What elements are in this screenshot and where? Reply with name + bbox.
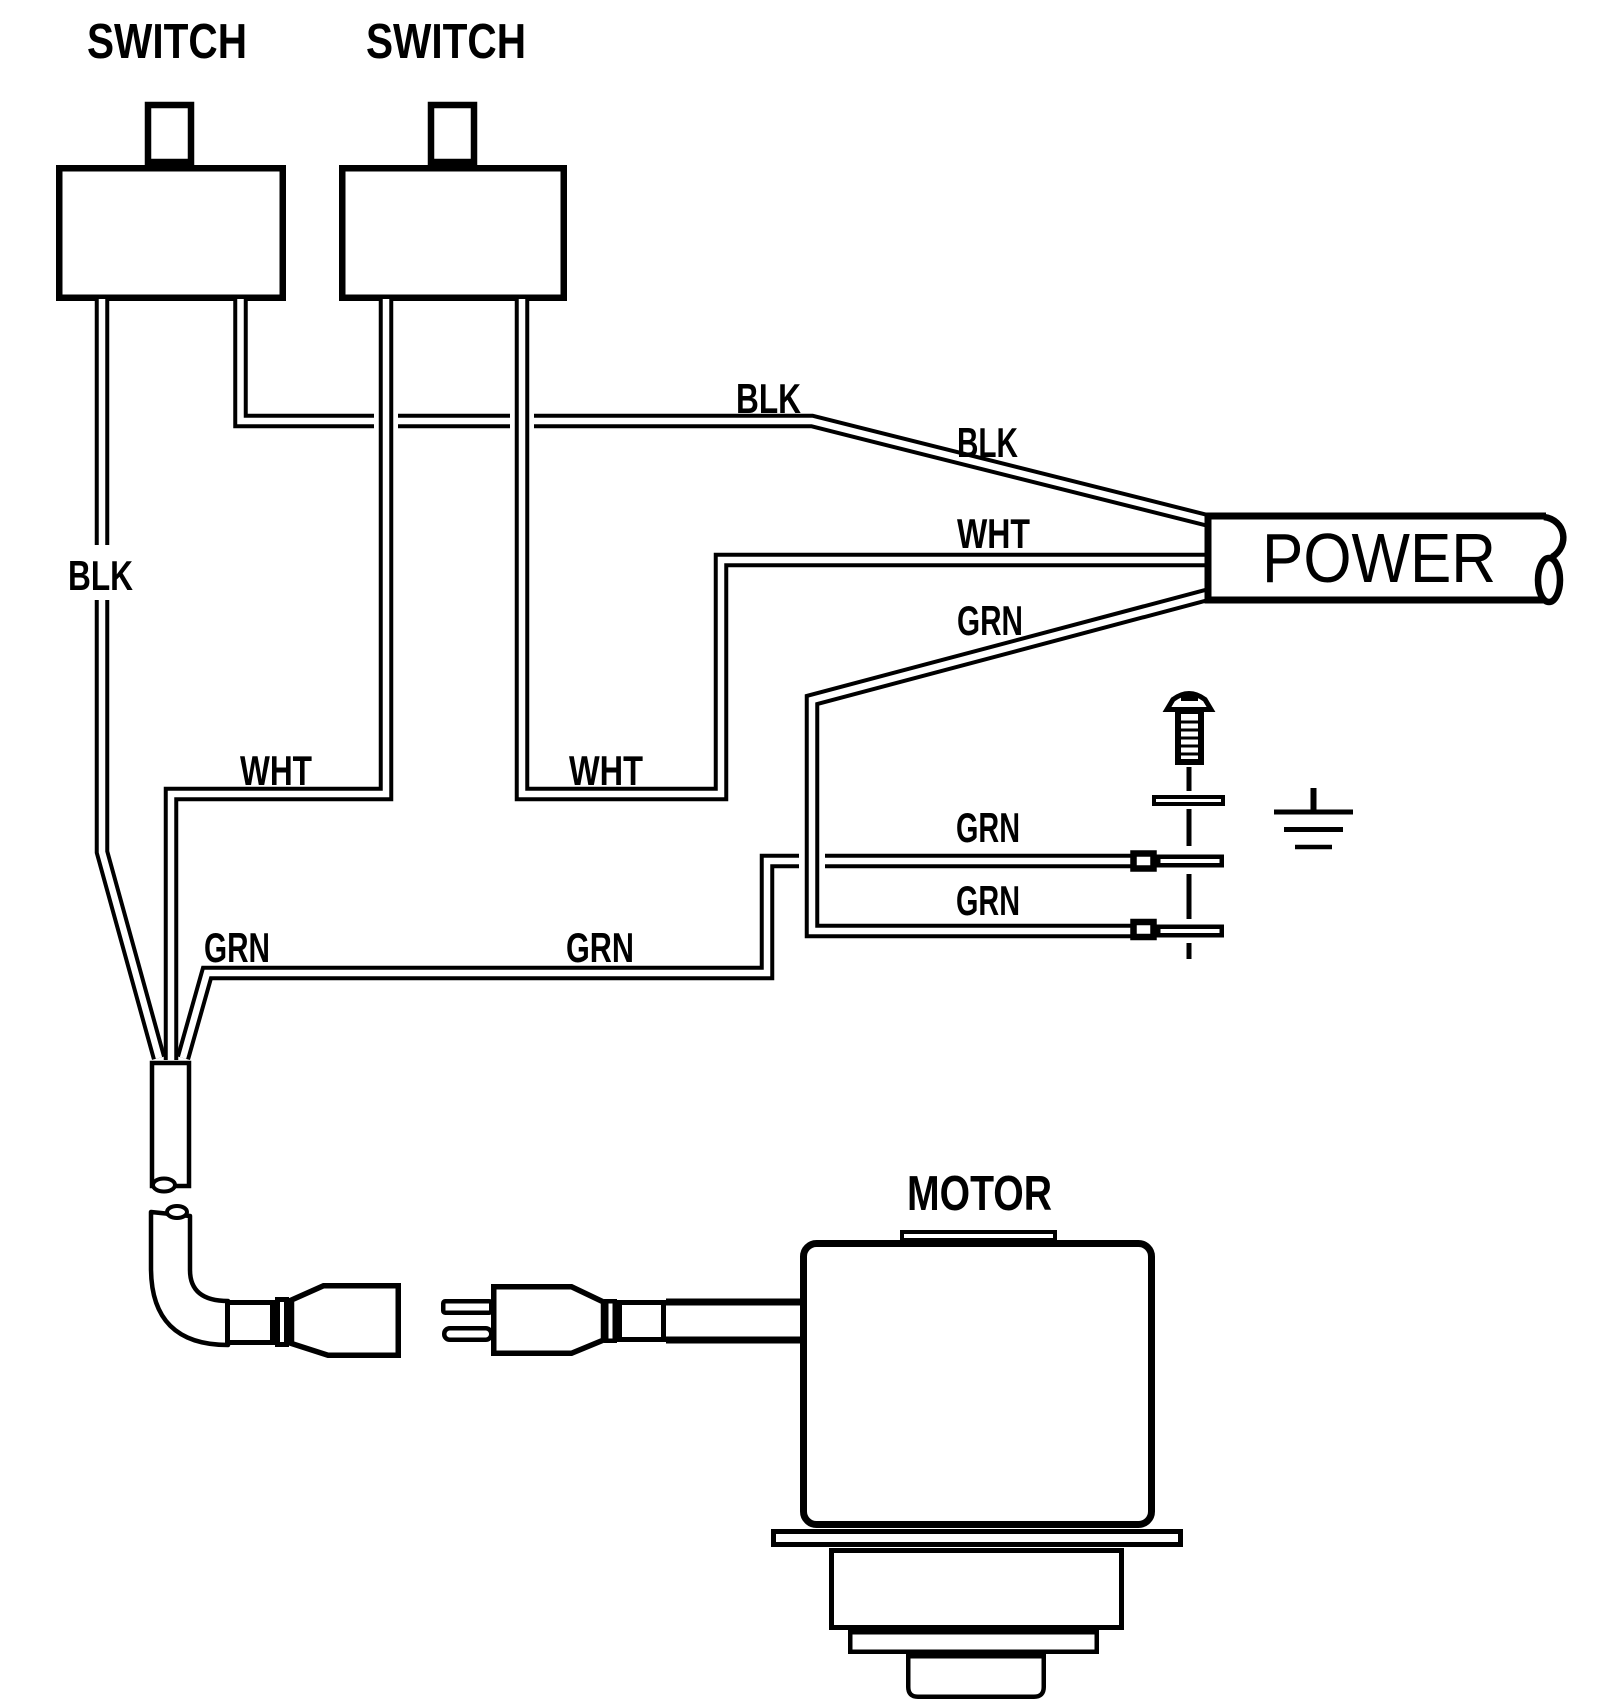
label WHT mid (569, 747, 643, 794)
wire BLK from switch S1 left pin to sleeve (102, 299, 159, 1058)
svg-text:GRN: GRN (957, 597, 1023, 644)
elbow ferrule ring (278, 1300, 287, 1345)
ring terminal 1 crimp (1134, 854, 1154, 869)
plug prong 2 (444, 1328, 491, 1340)
screw head (1167, 694, 1211, 710)
svg-text:SWITCH: SWITCH (87, 15, 247, 69)
wire GRN from POWER to ring terminal 2 (812, 592, 1218, 931)
washer (1154, 797, 1223, 804)
label SWITCH 2 (366, 15, 526, 69)
label MOTOR (907, 1167, 1052, 1221)
label GRN mid (566, 924, 634, 971)
motor step 2 (850, 1632, 1097, 1652)
wire WHT from switch S2 left pin to sleeve (171, 299, 386, 1060)
motor cable (666, 1302, 805, 1340)
ring terminal 1 blade (1158, 857, 1222, 866)
female connector body (292, 1286, 399, 1356)
plug ferrule (620, 1303, 664, 1340)
svg-text:MOTOR: MOTOR (907, 1167, 1052, 1221)
dashed center line (1187, 767, 1192, 959)
switch S1 body (59, 168, 283, 298)
label SWITCH 1 (87, 15, 247, 69)
label GRN left (204, 924, 270, 971)
svg-text:WHT: WHT (957, 510, 1030, 557)
svg-text:GRN: GRN (204, 924, 270, 971)
svg-text:GRN: GRN (956, 877, 1020, 924)
plug body (494, 1287, 604, 1354)
POWER cable end curl (1538, 517, 1563, 602)
label WHT left (240, 747, 312, 794)
motor body (804, 1244, 1152, 1525)
switch S2 button (431, 105, 474, 162)
ring terminal 2 crimp (1134, 922, 1154, 937)
ring terminal 2 blade (1158, 927, 1222, 936)
wire GRN from sleeve to ring terminal 1 (183, 861, 1138, 1058)
svg-text:POWER: POWER (1262, 519, 1496, 597)
label BLK top (736, 375, 801, 422)
ground symbol (1274, 788, 1353, 847)
elbow ferrule (228, 1303, 273, 1343)
cable sleeve (152, 1063, 189, 1192)
svg-text:WHT: WHT (240, 747, 312, 794)
screw shank with threads (1178, 711, 1201, 762)
svg-text:GRN: GRN (956, 804, 1020, 851)
svg-text:WHT: WHT (569, 747, 643, 794)
label BLK diagonal (957, 419, 1018, 466)
label GRN terminal 1 (956, 804, 1020, 851)
label GRN power (957, 597, 1023, 644)
plug neck ring (606, 1301, 615, 1341)
wire BLK from switch S1 right pin to POWER (241, 299, 1219, 523)
svg-text:BLK: BLK (957, 419, 1018, 466)
motor top tab (902, 1232, 1055, 1240)
plug prong 1 (443, 1301, 491, 1313)
motor cylinder (832, 1551, 1122, 1628)
label GRN terminal 2 (956, 877, 1020, 924)
POWER cable box (1208, 516, 1548, 600)
POWER label (1262, 519, 1496, 597)
label BLK left wire (64, 545, 140, 600)
svg-text:BLK: BLK (68, 552, 133, 599)
motor flange (774, 1532, 1181, 1545)
wire WHT from switch S2 right pin to POWER (522, 299, 1218, 794)
svg-text:GRN: GRN (566, 924, 634, 971)
label WHT power (957, 510, 1030, 557)
elbow conduit (151, 1206, 228, 1345)
svg-text:BLK: BLK (736, 375, 801, 422)
switch S1 button (148, 105, 191, 162)
switch S2 body (342, 168, 564, 298)
motor step 3 (908, 1656, 1044, 1697)
svg-text:SWITCH: SWITCH (366, 15, 526, 69)
